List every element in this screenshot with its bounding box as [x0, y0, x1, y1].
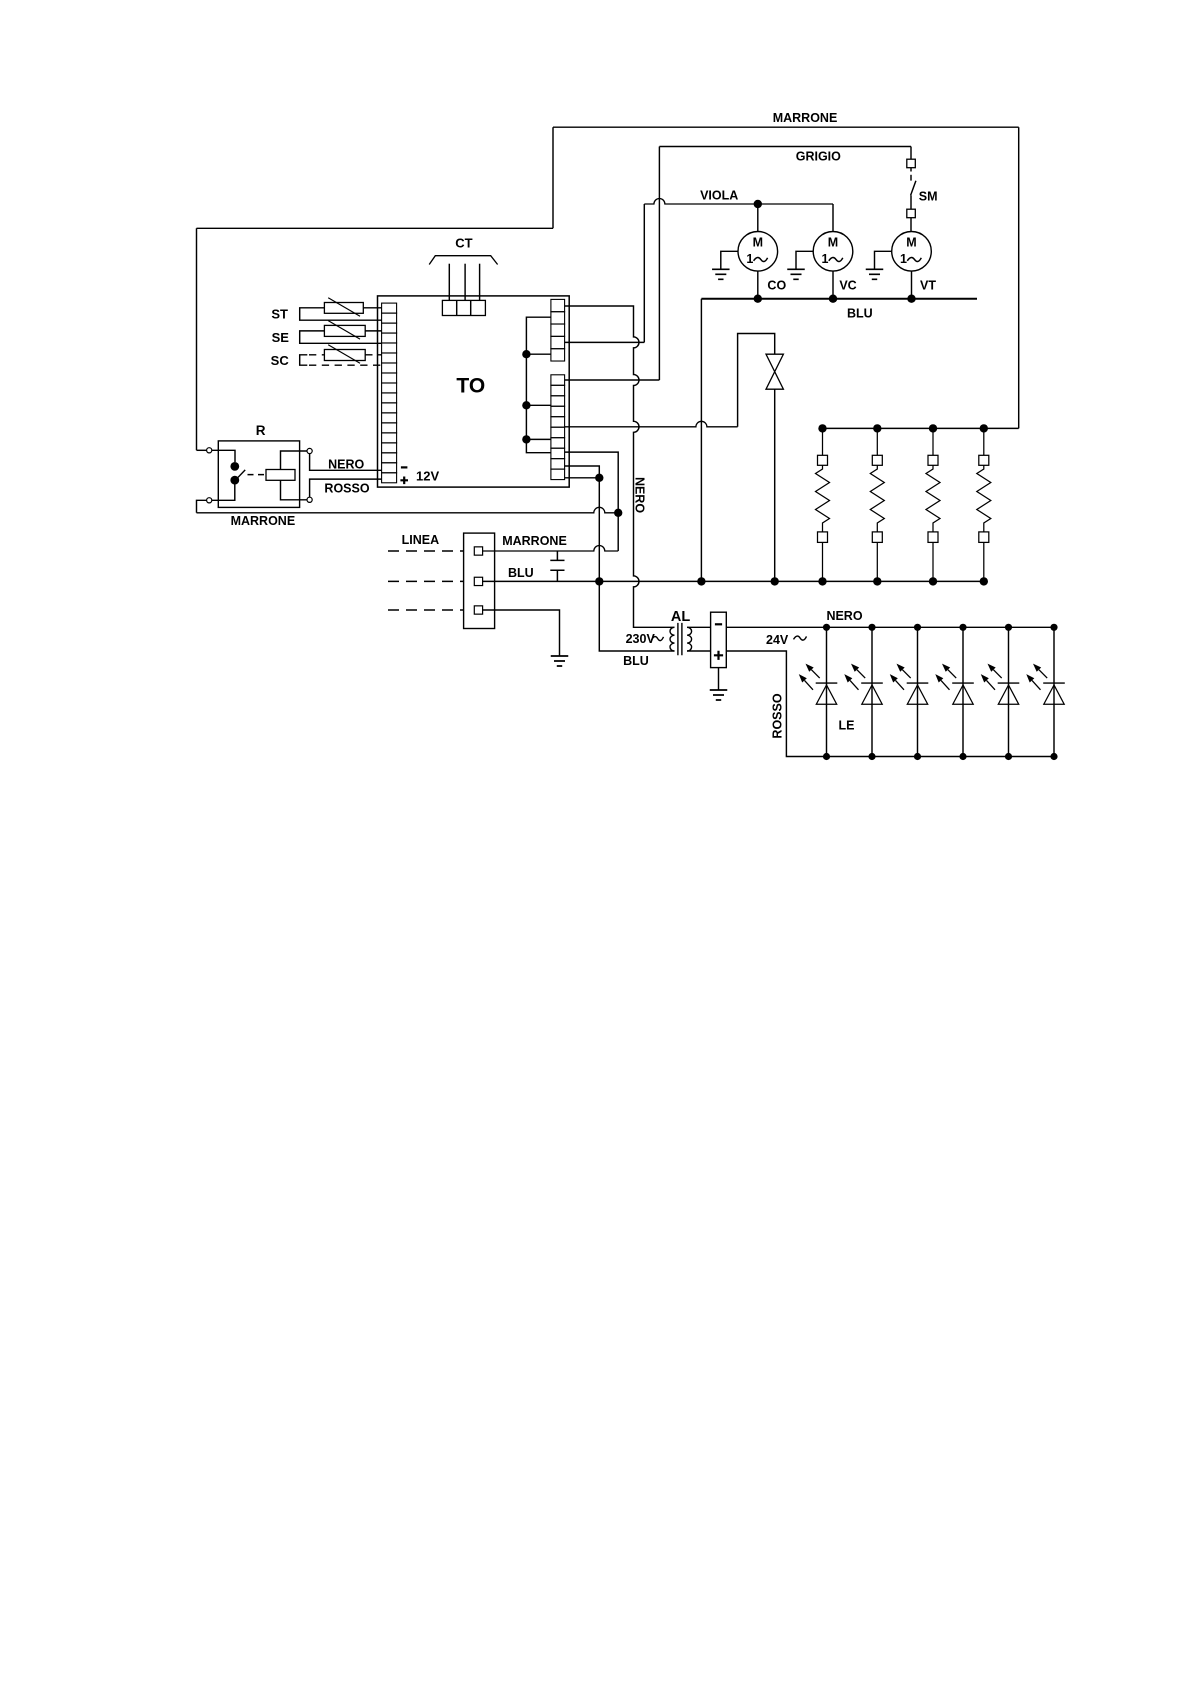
svg-text:SE: SE [272, 330, 290, 345]
terminal R top-left [207, 448, 212, 453]
junction D3 bottom [914, 753, 921, 760]
connector TO right upper (5 pins) [551, 299, 565, 361]
label minus rectifier [715, 623, 722, 625]
label plus 12V [400, 477, 408, 485]
svg-text:CT: CT [455, 235, 472, 250]
transformer primary coil [670, 627, 675, 651]
svg-text:SM: SM [919, 190, 938, 204]
wire CO to BLU bus [757, 271, 759, 299]
junction link pin 12 [522, 435, 530, 443]
wire NERO vertical (TO pin to transformer, hops) [565, 306, 675, 627]
junction VIOLA / CO [754, 200, 762, 208]
wire BLU bus drop [700, 299, 702, 582]
wire R contact to BL [212, 484, 235, 500]
junction VC bus [829, 295, 837, 303]
junction D6 top [1050, 624, 1057, 631]
wire CT pin 1 [448, 264, 450, 301]
wire NERO (R to TO) [310, 454, 382, 471]
svg-text:AL: AL [671, 609, 690, 625]
junction bus drop / BLU line [697, 577, 705, 585]
switch R blade [235, 470, 245, 480]
svg-text:ST: ST [271, 307, 288, 322]
wire TO pin 15 riser [565, 452, 619, 551]
junction D2 top [868, 624, 875, 631]
LED D2 [844, 627, 883, 756]
wire R BL to MARRONE [197, 500, 207, 513]
svg-text:LINEA: LINEA [402, 533, 440, 547]
resistor R4 [977, 428, 991, 581]
svg-text:NERO: NERO [632, 477, 646, 513]
junction D5 bottom [1005, 753, 1012, 760]
pin LINEA 3 [474, 606, 482, 614]
relay R box [218, 441, 299, 508]
junction D3 top [914, 624, 921, 631]
terminal R top-right [307, 448, 312, 453]
wire MARRONE top horizontal [553, 126, 1019, 128]
wire CT pin 3 [479, 264, 481, 301]
LED D3 [890, 627, 929, 756]
wire NERO led bus [726, 626, 1054, 628]
connector TO right lower (10 pins) [551, 375, 565, 480]
motor CO (M 1~) [738, 232, 778, 272]
svg-text:VIOLA: VIOLA [700, 188, 738, 202]
pin LINEA 1 [474, 547, 482, 555]
connector LINEA box [464, 533, 495, 628]
wire rectifier to earth [718, 668, 720, 690]
sensor ST [300, 298, 382, 321]
wire CT pin 2 [464, 264, 466, 301]
junction link pin 8 [522, 401, 530, 409]
junction R4 bottom [980, 577, 988, 585]
wire R coil bottom to BR [281, 480, 308, 500]
wire BLU line [483, 580, 984, 582]
resistor R3 [926, 428, 940, 581]
bracket CT [429, 256, 497, 265]
wire R coil top to TR [281, 451, 308, 470]
svg-text:12V: 12V [416, 469, 439, 484]
wire GRIGIO horizontal [659, 146, 911, 148]
junction R2 bottom [873, 577, 881, 585]
svg-text:GRIGIO: GRIGIO [796, 150, 841, 164]
connector CT pads [442, 300, 485, 315]
wire VIOLA to CO [757, 204, 759, 232]
capacitor MARRONE-BLU [550, 551, 564, 581]
wire MARRONE bottom (hops) [197, 507, 619, 512]
wire R TL lead [197, 449, 207, 451]
junction CO bus [754, 295, 762, 303]
pin LINEA 2 [474, 577, 482, 585]
wire LINEA dashed 3 [388, 609, 464, 611]
wire LINEA dashed 2 [388, 580, 464, 582]
wire ROSSO led feed [726, 651, 1054, 757]
wire LINEA dashed 1 [388, 550, 464, 552]
svg-text:BLU: BLU [847, 306, 873, 320]
wire GRIGIO drop to SM [910, 147, 912, 160]
wire LINEA MARRONE (hops riser) [483, 546, 619, 552]
junction D4 top [959, 624, 966, 631]
resistor R1 [816, 428, 830, 581]
junction valve / BLU line [771, 577, 779, 585]
wire BLU bus under motors [701, 298, 977, 300]
svg-text:ROSSO: ROSSO [324, 482, 369, 496]
svg-text:MARRONE: MARRONE [502, 534, 567, 548]
junction D5 top [1005, 624, 1012, 631]
LED D5 [981, 627, 1020, 756]
svg-text:MARRONE: MARRONE [231, 514, 296, 528]
wire ROSSO (R to TO) [310, 479, 382, 497]
rectifier block [711, 612, 727, 667]
svg-text:VC: VC [839, 279, 856, 293]
wire TO pin to GRIGIO [565, 379, 660, 381]
wire MARRONE upper horizontal [197, 227, 554, 229]
wire R TL to contact [212, 450, 235, 462]
junction D1 top [823, 624, 830, 631]
wire riser to transformer [599, 581, 674, 651]
switch SM [907, 159, 916, 218]
junction MARRONE / pin riser [614, 509, 622, 517]
coil R [266, 470, 295, 481]
junction D4 bottom [959, 753, 966, 760]
ground VC [796, 251, 813, 269]
switch R link dashes [248, 474, 265, 476]
wire internal link bus [526, 317, 551, 453]
svg-text:SC: SC [271, 353, 290, 368]
junction R3 bottom [929, 577, 937, 585]
ground VT [875, 251, 892, 269]
junction R1 top [818, 424, 826, 432]
svg-text:1: 1 [746, 252, 753, 266]
junction D6 bottom [1050, 753, 1057, 760]
wire VT to BLU bus [911, 271, 913, 299]
wire TO pin 17 to riser [565, 466, 600, 478]
valve EV [766, 354, 783, 389]
contact R upper [230, 462, 239, 471]
svg-text:1: 1 [822, 252, 829, 266]
wire riser to BLU line [598, 478, 600, 582]
LED D4 [935, 627, 974, 756]
svg-text:230V: 230V [626, 632, 656, 646]
svg-text:R: R [256, 423, 266, 438]
LED D6 [1026, 627, 1065, 756]
svg-text:LE: LE [839, 719, 855, 733]
wire MARRONE riser [552, 127, 554, 228]
sensor SE [300, 321, 382, 344]
svg-text:M: M [753, 235, 763, 249]
wire secondary to rectifier [687, 627, 711, 651]
junction riser / BLU line [595, 577, 603, 585]
label minus 12V [401, 466, 408, 468]
svg-text:ROSSO: ROSSO [771, 693, 785, 738]
svg-text:CO: CO [767, 279, 786, 293]
motor VT (M 1~) [892, 232, 932, 272]
ground rectifier [710, 690, 728, 700]
transformer secondary coil [687, 627, 692, 651]
junction R1 bottom [818, 577, 826, 585]
svg-text:M: M [828, 235, 838, 249]
label plus rectifier [714, 651, 723, 660]
svg-text:NERO: NERO [826, 609, 862, 623]
wire valve riser [738, 334, 775, 427]
wire VIOLA to VC [832, 204, 834, 232]
resistor R2 [870, 428, 884, 581]
svg-text:NERO: NERO [328, 458, 364, 472]
wire VIOLA horizontal (hops GRIGIO riser) [644, 199, 833, 204]
svg-text:VT: VT [920, 279, 936, 293]
ground CO [721, 251, 738, 269]
svg-text:BLU: BLU [623, 654, 649, 668]
svg-text:1: 1 [900, 252, 907, 266]
wire TO pin to valve (hops bus drop) [565, 421, 738, 427]
wire VIOLA riser [643, 204, 645, 342]
sensor SC [300, 345, 382, 366]
junction D2 bottom [868, 753, 875, 760]
wire TO pin 18 to riser [565, 477, 600, 479]
junction R2 top [873, 424, 881, 432]
control board TO outline [378, 296, 570, 487]
junction R4 top [980, 424, 988, 432]
terminal R bottom-right [307, 497, 312, 502]
connector TO left (18 pins) [382, 303, 397, 483]
contact R lower [230, 476, 239, 485]
wire MARRONE right drop to resistor bank [1018, 127, 1020, 428]
junction pins riser [595, 474, 603, 482]
svg-text:TO: TO [456, 375, 485, 398]
LED D1 [799, 627, 838, 756]
wire MARRONE left vertical [196, 228, 198, 450]
transformer core [678, 623, 682, 655]
wire resistor top bus [823, 427, 1019, 429]
svg-text:BLU: BLU [508, 566, 534, 580]
svg-text:MARRONE: MARRONE [773, 111, 838, 125]
junction R3 top [929, 424, 937, 432]
wire VC to BLU bus [832, 271, 834, 299]
wire valve to BLU line [774, 389, 776, 581]
motor VC (M 1~) [813, 232, 853, 272]
svg-text:24V: 24V [766, 633, 789, 647]
junction link pin 5 [522, 350, 530, 358]
wire LINEA pin3 to earth [483, 610, 560, 656]
junction D1 bottom [823, 753, 830, 760]
wire GRIGIO riser [658, 147, 660, 381]
wire TO pin to VIOLA [565, 341, 645, 343]
svg-text:M: M [906, 235, 916, 249]
ground LINEA [551, 656, 569, 666]
junction VT bus [907, 295, 915, 303]
terminal R bottom-left [207, 498, 212, 503]
wire SM to motor VT [910, 218, 912, 232]
